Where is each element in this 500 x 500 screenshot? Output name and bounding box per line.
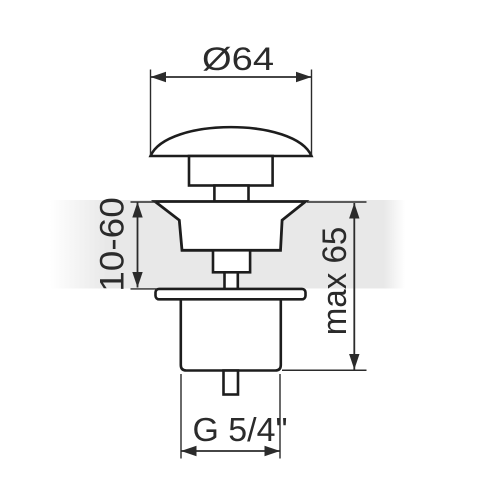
svg-text:Ø64: Ø64 — [202, 41, 274, 77]
svg-text:10-60: 10-60 — [94, 197, 132, 292]
svg-text:G 5/4": G 5/4" — [193, 411, 288, 448]
svg-text:max 65: max 65 — [316, 227, 354, 336]
